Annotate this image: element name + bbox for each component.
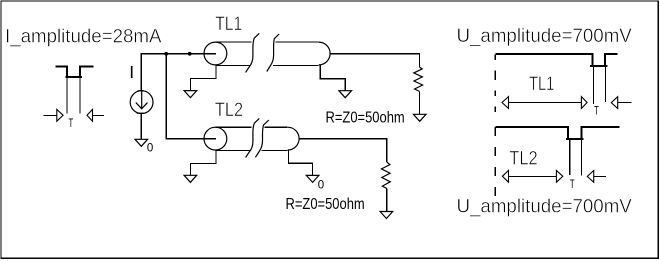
wire TL1 output to R1 <box>330 54 419 67</box>
wire node to TL2 <box>166 54 216 139</box>
svg-text:TL1: TL1 <box>529 73 554 95</box>
transmission line TL1 left section <box>204 33 259 72</box>
wire TL1 right ground pin <box>320 65 345 91</box>
ground 0 below I source <box>135 139 148 146</box>
left T-arrow <box>44 109 63 121</box>
delay arrow TL2 <box>502 170 562 182</box>
voltage waveform TL2 (bottom right) <box>495 127 619 198</box>
wire R2 to ground <box>386 189 388 212</box>
svg-text:U_amplitude=700mV: U_amplitude=700mV <box>457 25 632 47</box>
wire TL2 right ground pin <box>289 150 313 175</box>
right T-arrow <box>87 109 104 121</box>
svg-text:U_amplitude=700mV: U_amplitude=700mV <box>457 196 632 218</box>
right T-arrow (TL1 waveform) <box>611 97 631 109</box>
svg-text:0: 0 <box>318 178 325 192</box>
wire I source to node and to TL1 <box>141 54 216 91</box>
voltage waveform TL1 (top right) <box>495 54 617 112</box>
ground below TL1 left <box>184 91 197 98</box>
svg-text:TL1: TL1 <box>215 13 242 35</box>
transmission line TL2 left section <box>204 118 259 157</box>
transmission line TL2 right section <box>255 120 299 157</box>
delay arrow TL1 <box>502 97 587 109</box>
right T-arrow (TL2 waveform) <box>587 171 606 183</box>
ground below TL1 right <box>339 91 352 98</box>
current source I1 <box>130 91 153 114</box>
transmission line TL1 right section <box>267 34 330 72</box>
wire TL2 output to R2 <box>299 139 387 162</box>
current pulse pictogram (I waveform) <box>55 66 93 113</box>
ground below TL2 left <box>184 175 197 182</box>
wire R1 to ground <box>419 91 421 114</box>
svg-text:TL2: TL2 <box>509 147 537 169</box>
svg-text:T: T <box>69 116 74 130</box>
wire TL1 left ground pin <box>190 65 216 91</box>
ground 0 below TL2 right <box>306 175 319 182</box>
ground below R1 <box>413 114 426 121</box>
ground below R2 <box>380 212 393 219</box>
svg-text:I: I <box>129 62 134 82</box>
svg-text:TL2: TL2 <box>215 99 243 121</box>
svg-text:T: T <box>594 104 599 118</box>
svg-text:T: T <box>570 177 575 191</box>
svg-text:0: 0 <box>147 141 154 155</box>
node junction dot 1 <box>164 52 168 56</box>
node junction dot 2 <box>188 52 192 56</box>
wire I source to ground <box>140 114 142 140</box>
svg-text:I_amplitude=28mA: I_amplitude=28mA <box>5 26 162 48</box>
svg-text:R=Z0=50ohm: R=Z0=50ohm <box>286 196 365 213</box>
wire TL2 left ground pin <box>190 150 216 175</box>
svg-text:R=Z0=50ohm: R=Z0=50ohm <box>326 109 405 126</box>
resistor R2 <box>382 162 391 189</box>
resistor R1 <box>414 67 423 91</box>
